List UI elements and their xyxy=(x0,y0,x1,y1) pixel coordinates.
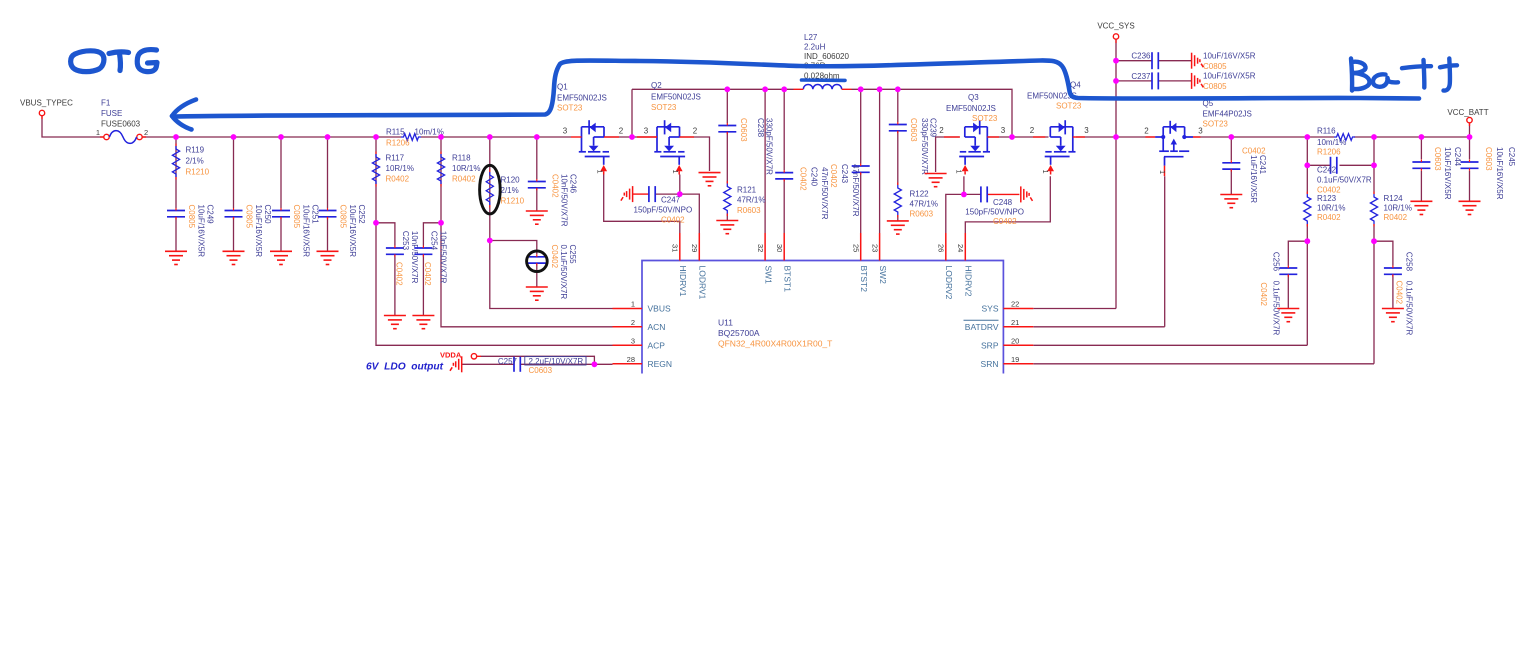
svg-text:330pF/50V/X7R: 330pF/50V/X7R xyxy=(765,118,774,175)
handwriting underline under 0.028ohm xyxy=(802,78,846,82)
svg-text:SOT23: SOT23 xyxy=(651,103,677,112)
resistor R123 xyxy=(1304,194,1311,224)
C257 value box xyxy=(525,357,586,365)
svg-text:R122: R122 xyxy=(910,190,930,199)
svg-text:C236: C236 xyxy=(1131,52,1151,61)
ground under C255 xyxy=(526,287,548,300)
resistor R119 xyxy=(172,146,179,177)
wire: C250 to ground xyxy=(233,217,235,251)
wire: R117 bottom to C253 xyxy=(376,223,395,246)
wire: C245 to ground xyxy=(1469,171,1471,202)
wire: rail left section xyxy=(632,88,794,90)
wire: Q5 pin3 to VCC_BATT bus xyxy=(1185,136,1334,138)
wire: C256 to ground xyxy=(1287,274,1289,308)
svg-text:1: 1 xyxy=(631,300,635,309)
svg-text:C0402: C0402 xyxy=(1317,186,1341,195)
wire: SRN row xyxy=(1033,363,1374,365)
svg-text:150pF/50V/NPO: 150pF/50V/NPO xyxy=(634,206,693,215)
annotation black circle around C255 xyxy=(527,251,548,272)
transistor Q1 xyxy=(579,120,610,174)
wire: R124 column upper xyxy=(1373,137,1375,194)
wire: R122 to ground xyxy=(897,215,899,221)
svg-text:VBUS: VBUS xyxy=(648,304,671,314)
svg-text:C0805: C0805 xyxy=(339,205,348,229)
rotated ground at C237 xyxy=(1192,73,1204,89)
svg-text:0.1uF/50V/X7R: 0.1uF/50V/X7R xyxy=(1405,281,1414,336)
VDDA net circle xyxy=(471,354,476,359)
fuse F1 xyxy=(104,134,109,139)
wire: REGN row left of C257 xyxy=(462,363,514,365)
svg-text:10R/1%: 10R/1% xyxy=(452,164,480,173)
svg-text:25: 25 xyxy=(852,244,861,252)
svg-text:32: 32 xyxy=(756,244,765,252)
svg-text:C0402: C0402 xyxy=(394,262,403,286)
wire: R120 bottom to C255 xyxy=(490,241,537,255)
svg-text:C0805: C0805 xyxy=(187,205,196,229)
svg-text:R0603: R0603 xyxy=(737,206,761,215)
svg-text:R1210: R1210 xyxy=(501,197,525,206)
wire: C241 to ground xyxy=(1230,169,1232,194)
wire: C236 to ground xyxy=(1158,60,1191,62)
pin 19 SRN stub xyxy=(1003,363,1033,365)
wire: Q4 pin3 to Q5 pin2 xyxy=(1076,136,1155,138)
svg-text:10uF/16V/X5R: 10uF/16V/X5R xyxy=(254,205,263,258)
svg-text:SOT23: SOT23 xyxy=(972,114,998,123)
ground under C253 xyxy=(384,316,406,329)
svg-text:SYS: SYS xyxy=(981,304,998,314)
wire: C237 to ground xyxy=(1158,80,1191,82)
ground at Q2 source xyxy=(699,173,721,186)
wire: R124 to SRN xyxy=(1373,224,1375,364)
port VCC_SYS xyxy=(1113,34,1118,39)
svg-text:47nF/50V/X7R: 47nF/50V/X7R xyxy=(851,164,860,217)
svg-text:C253: C253 xyxy=(401,231,410,251)
svg-text:C246: C246 xyxy=(569,174,578,194)
svg-text:C248: C248 xyxy=(993,198,1013,207)
wire: R123 column upper xyxy=(1306,137,1308,194)
capacitor C248 xyxy=(981,186,987,202)
svg-text:3: 3 xyxy=(563,127,568,136)
svg-text:2.2uF/10V/X7R: 2.2uF/10V/X7R xyxy=(529,357,584,366)
wire: BTST2 column upper xyxy=(860,89,862,163)
svg-text:Q1: Q1 xyxy=(557,83,568,92)
svg-text:2: 2 xyxy=(619,127,624,136)
ground under C254 xyxy=(412,316,434,329)
svg-text:10m/1%: 10m/1% xyxy=(1317,138,1346,147)
svg-text:1: 1 xyxy=(955,170,964,174)
ground under R121 xyxy=(716,221,738,234)
svg-text:6V LDO output: 6V LDO output xyxy=(366,361,444,372)
svg-text:LODRV1: LODRV1 xyxy=(698,266,708,300)
svg-text:SRN: SRN xyxy=(981,359,999,369)
svg-text:R121: R121 xyxy=(737,186,757,195)
capacitor C254 xyxy=(414,248,432,254)
ground under C246 xyxy=(526,211,548,224)
wire: C249 to ground xyxy=(175,217,177,251)
svg-text:QFN32_4R00X4R00X1R00_T: QFN32_4R00X4R00X1R00_T xyxy=(718,339,832,349)
transistor Q4 xyxy=(1045,120,1076,174)
wire: C244 column xyxy=(1420,137,1422,159)
ground under C245 xyxy=(1459,201,1481,214)
wire: BATDRV row xyxy=(1033,326,1164,328)
svg-text:EMF50N02JS: EMF50N02JS xyxy=(651,93,701,102)
port VBUS_TYPEC xyxy=(39,110,44,115)
svg-text:R1206: R1206 xyxy=(1317,148,1341,157)
pin 24 HIDRV2 stub xyxy=(964,233,966,261)
svg-text:C242: C242 xyxy=(1317,166,1337,175)
wire: R117 column to ACP xyxy=(376,137,613,345)
ground at Q3 source xyxy=(925,174,947,187)
svg-text:VBUS_TYPEC: VBUS_TYPEC xyxy=(20,99,73,108)
resistor R122 xyxy=(894,185,901,215)
svg-text:26: 26 xyxy=(937,244,946,252)
svg-text:C247: C247 xyxy=(661,196,681,205)
svg-text:47R/1%: 47R/1% xyxy=(737,196,765,205)
svg-text:2: 2 xyxy=(1030,126,1035,135)
svg-text:R124: R124 xyxy=(1384,194,1404,203)
wire: Q4 gate to HIDRV2 xyxy=(965,176,1050,233)
wire: C255 to ground xyxy=(536,263,538,287)
svg-text:C0402: C0402 xyxy=(829,164,838,188)
wire: R119/C249 column xyxy=(175,137,177,208)
wire: C258 branch xyxy=(1374,241,1393,265)
ground under C249 xyxy=(165,251,187,264)
svg-text:2: 2 xyxy=(939,126,944,135)
ic U11 outline xyxy=(642,261,1003,374)
svg-text:330pF/50V/X7R: 330pF/50V/X7R xyxy=(920,118,929,175)
svg-text:2: 2 xyxy=(144,128,148,137)
svg-text:47R/1%: 47R/1% xyxy=(910,200,938,209)
wire: VDDA to REGN junction xyxy=(481,356,595,364)
wire: C244 to ground xyxy=(1420,171,1422,202)
svg-text:C245: C245 xyxy=(1507,147,1516,167)
svg-text:C0805: C0805 xyxy=(292,205,301,229)
rotated ground at C236 xyxy=(1192,53,1204,69)
resistor R118 xyxy=(437,154,444,184)
svg-text:22: 22 xyxy=(1011,300,1019,309)
wire: R118 bottom to C254 xyxy=(423,223,441,246)
svg-text:VCC_BATT: VCC_BATT xyxy=(1447,108,1488,117)
svg-text:10R/1%: 10R/1% xyxy=(386,164,414,173)
svg-text:C252: C252 xyxy=(357,205,366,225)
svg-text:REGN: REGN xyxy=(648,359,673,369)
svg-text:C0402: C0402 xyxy=(551,174,560,198)
svg-text:C0805: C0805 xyxy=(1203,62,1227,71)
svg-text:10R/1%: 10R/1% xyxy=(1384,204,1412,213)
wire: REGN row right of C257 xyxy=(520,363,612,365)
svg-text:R0402: R0402 xyxy=(386,175,410,184)
svg-text:ACP: ACP xyxy=(648,341,666,351)
svg-text:HIDRV1: HIDRV1 xyxy=(678,266,688,297)
wire: BTST1 column lower xyxy=(783,179,785,233)
svg-text:3: 3 xyxy=(1001,126,1006,135)
wire: C239 to R122 xyxy=(897,131,899,185)
svg-text:C251: C251 xyxy=(311,205,320,225)
svg-text:C257: C257 xyxy=(498,357,518,366)
svg-text:C0402: C0402 xyxy=(661,216,685,225)
wire: C246 to ground xyxy=(536,188,538,211)
svg-text:10uF/16V/X5R: 10uF/16V/X5R xyxy=(197,205,206,258)
svg-text:10R/1%: 10R/1% xyxy=(1317,204,1345,213)
svg-text:C0805: C0805 xyxy=(245,205,254,229)
resistor R117 xyxy=(372,154,379,184)
svg-text:C237: C237 xyxy=(1131,72,1151,81)
svg-text:R119: R119 xyxy=(186,146,205,155)
transistor Q2 xyxy=(654,120,685,174)
svg-text:C0603: C0603 xyxy=(739,118,748,142)
svg-text:1: 1 xyxy=(1041,170,1050,174)
capacitor C255 (circled) xyxy=(528,257,546,263)
wire: BTST2 column lower xyxy=(860,172,862,233)
svg-text:SOT23: SOT23 xyxy=(1203,120,1229,129)
wire: C258 to ground xyxy=(1392,274,1394,308)
svg-text:VCC_SYS: VCC_SYS xyxy=(1097,22,1134,31)
pin 1 VBUS stub xyxy=(613,308,643,310)
wire: C247 to rotated ground xyxy=(633,193,649,195)
capacitor C251 xyxy=(272,211,290,217)
capacitor C244 xyxy=(1412,162,1430,168)
wire: C248 right plate to rotated ground xyxy=(987,193,1019,195)
svg-text:10uF/16V/X5R: 10uF/16V/X5R xyxy=(348,205,357,258)
svg-text:10uF/16V/X5R: 10uF/16V/X5R xyxy=(1495,147,1504,200)
ground under R122 xyxy=(887,221,909,234)
ground under C256 xyxy=(1277,309,1299,322)
svg-text:R123: R123 xyxy=(1317,194,1337,203)
svg-text:1uF/16V/X5R: 1uF/16V/X5R xyxy=(1249,155,1258,203)
resistor R124 xyxy=(1370,194,1377,224)
wire: SYS row to VCC_SYS column xyxy=(1033,308,1116,310)
pin 30 BTST1 stub xyxy=(783,233,785,261)
svg-text:47nF/50V/X7R: 47nF/50V/X7R xyxy=(820,167,829,220)
wire: LODRV2 drop xyxy=(946,194,964,233)
svg-text:FUSE0603: FUSE0603 xyxy=(101,120,141,129)
junction dots on buses xyxy=(173,134,179,140)
svg-text:F1: F1 xyxy=(101,99,111,108)
svg-text:21: 21 xyxy=(1011,318,1019,327)
wire: R120 column to VBUS pin xyxy=(490,137,613,309)
svg-text:R117: R117 xyxy=(386,154,405,163)
svg-text:SOT23: SOT23 xyxy=(1056,102,1082,111)
svg-text:C0402: C0402 xyxy=(423,262,432,286)
wire: C241 column xyxy=(1230,137,1232,160)
rotated ground at C248 xyxy=(1021,186,1033,202)
svg-text:2: 2 xyxy=(693,127,698,136)
svg-text:0.1uF/50V/X7R: 0.1uF/50V/X7R xyxy=(1317,176,1372,185)
capacitor C257 xyxy=(514,357,520,372)
svg-text:1: 1 xyxy=(596,170,605,174)
svg-text:C255: C255 xyxy=(568,245,577,265)
svg-text:2.2uH: 2.2uH xyxy=(804,43,826,52)
svg-text:LODRV2: LODRV2 xyxy=(944,266,954,300)
svg-text:10nF/50V/X7R: 10nF/50V/X7R xyxy=(439,231,448,284)
pin 29 LODRV1 stub xyxy=(698,233,700,261)
resistor R121 xyxy=(724,184,731,214)
svg-text:19: 19 xyxy=(1011,355,1019,364)
resistor R115 in bus xyxy=(401,134,421,141)
port VCC_BATT xyxy=(1467,117,1472,122)
svg-text:10uF/16V/X5R: 10uF/16V/X5R xyxy=(302,205,311,258)
svg-text:C0805: C0805 xyxy=(1203,82,1227,91)
svg-text:30: 30 xyxy=(775,244,784,252)
wire: C256 branch xyxy=(1288,241,1307,265)
svg-text:0.1uF/50V/X7R: 0.1uF/50V/X7R xyxy=(559,245,568,300)
capacitor C236 xyxy=(1152,52,1158,69)
wire: VBUS_TYPEC port drop xyxy=(42,116,104,137)
svg-text:HIDRV2: HIDRV2 xyxy=(964,266,974,297)
wire: Q3 gate node xyxy=(963,176,965,194)
svg-text:R1206: R1206 xyxy=(386,139,410,148)
svg-text:C0402: C0402 xyxy=(1259,282,1268,306)
handwriting Batt xyxy=(1351,59,1457,91)
node VCC_SYS: vertical column xyxy=(1115,40,1117,309)
wire: C253 to ground xyxy=(394,254,396,315)
svg-text:3: 3 xyxy=(644,127,649,136)
svg-text:R0402: R0402 xyxy=(1317,213,1341,222)
power symbol VDDA xyxy=(450,356,462,372)
svg-text:C238: C238 xyxy=(756,118,765,138)
rotated ground at C247 xyxy=(621,186,633,202)
pin 21 BATDRV stub xyxy=(1003,326,1033,328)
svg-text:R116: R116 xyxy=(1317,127,1336,136)
wire: R123 to SRP xyxy=(1306,224,1308,345)
svg-text:1: 1 xyxy=(96,128,100,137)
svg-text:SRP: SRP xyxy=(981,341,999,351)
capacitor C252 xyxy=(319,211,337,217)
svg-text:10uF/16V/X5R: 10uF/16V/X5R xyxy=(1203,52,1256,61)
svg-text:31: 31 xyxy=(671,244,680,252)
svg-text:FUSE: FUSE xyxy=(101,109,122,118)
wire: Q1 gate to HIDRV1 xyxy=(604,175,680,234)
wire: C237 branch xyxy=(1116,80,1152,82)
svg-text:24: 24 xyxy=(956,244,965,252)
svg-text:C241: C241 xyxy=(1258,155,1267,175)
svg-text:10uF/16V/X5R: 10uF/16V/X5R xyxy=(1443,147,1452,200)
ground under C251 xyxy=(270,251,292,264)
svg-text:C0603: C0603 xyxy=(909,118,918,142)
wire: C238 snubber column xyxy=(726,89,728,123)
svg-text:EMF50N02JS: EMF50N02JS xyxy=(557,94,607,103)
capacitor C258 xyxy=(1384,268,1402,274)
svg-text:VDDA: VDDA xyxy=(440,351,462,360)
capacitor C242 xyxy=(1331,157,1337,174)
svg-text:2/1%: 2/1% xyxy=(186,157,204,166)
wire: R121 to ground xyxy=(726,214,728,221)
capacitor C238 xyxy=(718,126,736,132)
wire: Q3 pin2 to ground column xyxy=(936,137,960,172)
wire: SRP row xyxy=(1033,344,1307,346)
wire: C248 left connection xyxy=(964,193,981,195)
pin BATDRV overline xyxy=(964,319,999,321)
wire: C254 to ground xyxy=(422,254,424,315)
svg-text:2: 2 xyxy=(1144,127,1149,136)
svg-text:BTST2: BTST2 xyxy=(859,266,869,293)
svg-text:10uF/16V/X5R: 10uF/16V/X5R xyxy=(1203,72,1256,81)
svg-text:2/1%: 2/1% xyxy=(501,186,519,195)
svg-text:R115: R115 xyxy=(386,128,405,137)
wire: C246 column xyxy=(536,137,538,179)
svg-text:R0603: R0603 xyxy=(910,210,934,219)
svg-text:28: 28 xyxy=(627,355,635,364)
wire: C252 column xyxy=(327,137,329,208)
svg-text:150pF/50V/NPO: 150pF/50V/NPO xyxy=(965,208,1024,217)
svg-text:C0402: C0402 xyxy=(993,217,1017,226)
svg-text:BQ25700A: BQ25700A xyxy=(718,328,760,338)
svg-text:Q3: Q3 xyxy=(968,93,979,102)
capacitor C240 xyxy=(775,173,793,179)
capacitor C241 xyxy=(1222,163,1240,169)
annotation black ellipse around R120 xyxy=(480,165,501,214)
capacitor C253 xyxy=(386,248,404,254)
pin 3 ACP stub xyxy=(613,344,643,346)
svg-text:1: 1 xyxy=(671,170,680,174)
wire: BTST1 column upper xyxy=(783,89,785,170)
wire: C239 snubber column xyxy=(897,89,899,122)
capacitor C243 xyxy=(852,166,870,172)
svg-text:C0402: C0402 xyxy=(550,245,559,269)
capacitor C239 xyxy=(889,125,907,131)
ground under C244 xyxy=(1410,201,1432,214)
ground under C250 xyxy=(223,251,245,264)
capacitor C245 xyxy=(1461,162,1479,168)
svg-text:C243: C243 xyxy=(840,164,849,184)
capacitor C249 xyxy=(167,211,185,217)
svg-text:R120: R120 xyxy=(501,176,521,185)
svg-text:10nF/50V/X7R: 10nF/50V/X7R xyxy=(560,174,569,227)
pin 32 SW1 stub xyxy=(764,233,766,261)
capacitor C237 xyxy=(1152,72,1158,89)
handwriting OTG xyxy=(71,50,157,72)
wire: C251 to ground xyxy=(280,217,282,251)
svg-text:C0402: C0402 xyxy=(799,167,808,191)
svg-text:EMF44P02JS: EMF44P02JS xyxy=(1203,110,1252,119)
svg-text:L27: L27 xyxy=(804,33,818,42)
inductor L27 xyxy=(803,84,841,89)
resistor R116 in bus xyxy=(1334,134,1355,141)
svg-text:C249: C249 xyxy=(206,205,215,225)
svg-text:EMF50N02JS: EMF50N02JS xyxy=(946,104,996,113)
wire: Q1 pin2 to Q2 pin3 segment xyxy=(604,136,657,138)
wire: SW2 column xyxy=(879,89,881,233)
svg-text:29: 29 xyxy=(690,244,699,252)
svg-text:U11: U11 xyxy=(718,318,733,328)
capacitor C246 xyxy=(528,182,546,188)
pin 2 ACN stub xyxy=(613,326,643,328)
svg-text:C254: C254 xyxy=(430,231,439,251)
handwriting arrow and long line xyxy=(172,60,1419,129)
ground under C258 xyxy=(1382,309,1404,322)
wire: C250 column xyxy=(233,137,235,208)
pin 22 SYS stub xyxy=(1003,308,1033,310)
svg-text:R0402: R0402 xyxy=(1384,213,1408,222)
wire: bus between R115 and Q1 xyxy=(421,136,571,138)
svg-text:C240: C240 xyxy=(810,167,819,187)
svg-text:10nF/50V/X7R: 10nF/50V/X7R xyxy=(410,231,419,284)
svg-text:C250: C250 xyxy=(263,205,272,225)
svg-text:BATDRV: BATDRV xyxy=(965,322,999,332)
pin 31 HIDRV1 stub xyxy=(679,233,681,261)
capacitor C256 xyxy=(1279,268,1297,274)
wire: main input bus left section xyxy=(142,136,401,138)
svg-text:C258: C258 xyxy=(1405,252,1414,272)
wire: SW1 column xyxy=(764,89,766,233)
wire: C238 to R121 xyxy=(726,132,728,184)
svg-text:C0603: C0603 xyxy=(1484,147,1493,171)
svg-text:IND_606020: IND_606020 xyxy=(804,52,849,61)
wire: Q3 pin3 to Q4 pin2 xyxy=(987,136,1048,138)
svg-text:SW1: SW1 xyxy=(763,266,773,285)
wire: Q2 pin2 to ground column xyxy=(680,137,710,171)
wire: bus R116 to VCC_BATT xyxy=(1354,136,1470,138)
